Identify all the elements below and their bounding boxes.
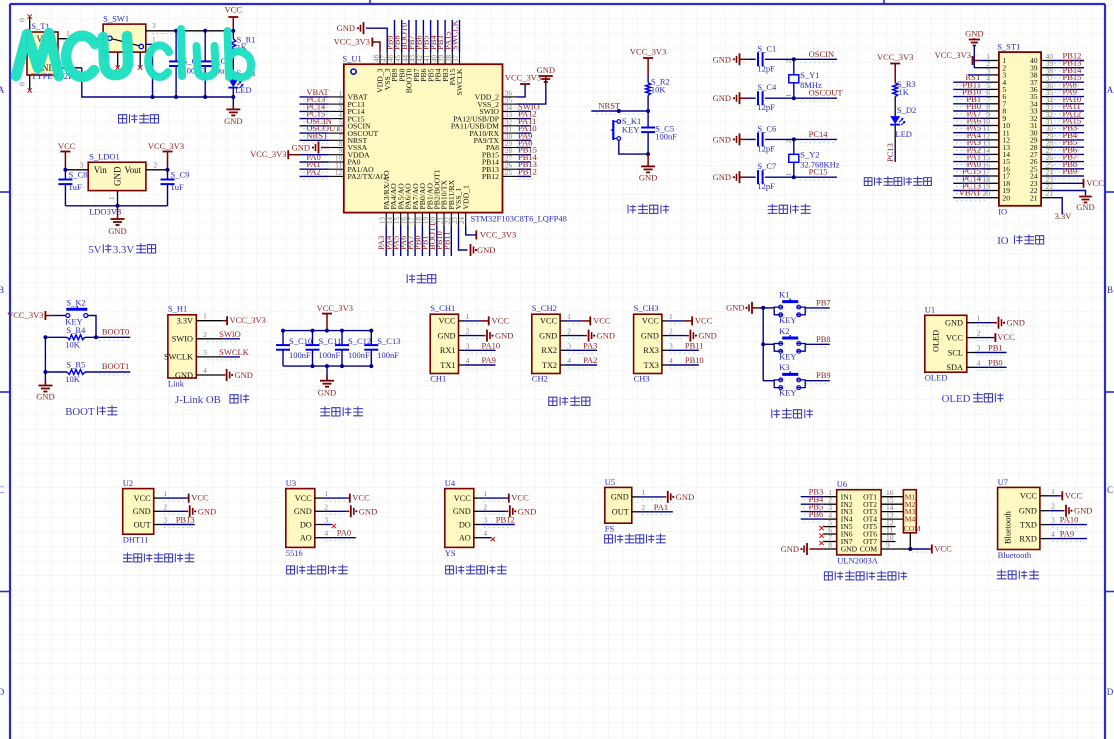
svg-text:TX1: TX1 xyxy=(440,361,455,370)
svg-text:U6: U6 xyxy=(837,479,847,489)
svg-text:24: 24 xyxy=(458,217,466,225)
svg-text:U3: U3 xyxy=(286,478,296,488)
svg-text:BOOT: BOOT xyxy=(65,406,95,418)
svg-text:D: D xyxy=(1107,687,1114,697)
svg-text:RX3: RX3 xyxy=(643,346,659,355)
svg-text:RXD: RXD xyxy=(1019,534,1037,543)
svg-text:GND: GND xyxy=(639,173,657,183)
svg-text:PA10: PA10 xyxy=(482,340,501,350)
svg-text:2: 2 xyxy=(641,503,645,512)
svg-text:0: 0 xyxy=(18,82,27,86)
svg-text:OUT: OUT xyxy=(612,508,629,517)
svg-text:GND: GND xyxy=(518,506,536,516)
svg-text:PB9: PB9 xyxy=(1063,166,1078,176)
svg-text:S_C8: S_C8 xyxy=(69,170,88,180)
svg-text:NRST: NRST xyxy=(598,101,621,111)
svg-text:S_Y1: S_Y1 xyxy=(800,70,819,80)
svg-text:U5: U5 xyxy=(605,477,615,487)
svg-text:VCC_3V3: VCC_3V3 xyxy=(250,149,286,159)
svg-text:GND: GND xyxy=(597,331,615,341)
svg-text:2: 2 xyxy=(669,327,673,336)
svg-text:1: 1 xyxy=(466,312,470,321)
svg-text:B: B xyxy=(1107,285,1113,295)
svg-text:SWIO: SWIO xyxy=(172,335,193,344)
svg-text:Vin: Vin xyxy=(94,165,107,175)
svg-text:IO: IO xyxy=(998,207,1007,217)
svg-text:S_C9: S_C9 xyxy=(171,170,190,180)
svg-text:AO: AO xyxy=(459,534,471,543)
svg-text:FS: FS xyxy=(605,524,615,534)
svg-text:1uF: 1uF xyxy=(69,182,83,192)
svg-text:1: 1 xyxy=(785,172,793,176)
svg-text:3: 3 xyxy=(80,161,84,170)
svg-text:VCC_3V3: VCC_3V3 xyxy=(230,315,266,325)
svg-text:GND: GND xyxy=(841,545,858,554)
svg-text:GND: GND xyxy=(1019,507,1037,516)
svg-text:PB8: PB8 xyxy=(816,334,831,344)
svg-text:DHT11: DHT11 xyxy=(123,535,149,545)
svg-text:10K: 10K xyxy=(65,340,81,350)
svg-text:2: 2 xyxy=(483,502,487,511)
svg-text:VCC: VCC xyxy=(295,494,313,503)
svg-text:B: B xyxy=(0,285,4,295)
svg-text:12pF: 12pF xyxy=(757,181,775,191)
svg-text:GND: GND xyxy=(133,507,151,516)
svg-text:U4: U4 xyxy=(445,478,456,488)
svg-text:4: 4 xyxy=(324,529,328,538)
svg-text:LDO3V3: LDO3V3 xyxy=(89,207,121,217)
svg-text:PB6: PB6 xyxy=(809,509,824,519)
svg-text:KEY: KEY xyxy=(779,388,796,398)
svg-text:3.3V: 3.3V xyxy=(177,317,193,326)
svg-text:S_C6: S_C6 xyxy=(757,123,776,133)
svg-text:4: 4 xyxy=(669,356,673,365)
svg-text:4: 4 xyxy=(203,366,207,375)
svg-text:J-Link OB: J-Link OB xyxy=(175,394,221,406)
svg-text:VCC_3V3: VCC_3V3 xyxy=(630,47,666,57)
svg-text:VCC: VCC xyxy=(934,544,952,554)
svg-text:PB7: PB7 xyxy=(816,297,831,307)
svg-text:21: 21 xyxy=(1030,193,1038,202)
svg-text:3: 3 xyxy=(977,344,981,353)
svg-text:100nF: 100nF xyxy=(655,132,677,142)
svg-text:3: 3 xyxy=(669,341,673,350)
svg-text:GND: GND xyxy=(108,226,126,236)
svg-text:2: 2 xyxy=(324,502,328,511)
svg-text:VCC: VCC xyxy=(492,315,510,325)
svg-text:1: 1 xyxy=(203,312,207,321)
svg-text:AO: AO xyxy=(300,534,312,543)
svg-text:GND: GND xyxy=(713,54,731,64)
svg-text:1uF: 1uF xyxy=(171,182,185,192)
svg-text:PA1: PA1 xyxy=(654,502,668,512)
svg-text:PB9: PB9 xyxy=(816,370,831,380)
svg-text:GND: GND xyxy=(641,331,659,340)
svg-text:32.768KHz: 32.768KHz xyxy=(800,159,840,169)
svg-text:KEY: KEY xyxy=(622,125,639,135)
svg-text:M4: M4 xyxy=(905,515,916,524)
svg-text:VCC: VCC xyxy=(225,5,243,15)
svg-text:VDD_1: VDD_1 xyxy=(461,185,470,209)
svg-text:1: 1 xyxy=(785,93,793,97)
svg-text:PA2/TX/AO: PA2/TX/AO xyxy=(348,172,387,181)
svg-text:PA0: PA0 xyxy=(337,528,351,538)
svg-text:OLED: OLED xyxy=(932,330,941,352)
svg-text:S_D2: S_D2 xyxy=(897,105,916,115)
svg-text:GND: GND xyxy=(537,65,555,75)
svg-text:VCC: VCC xyxy=(1020,492,1038,501)
svg-text:DO: DO xyxy=(300,520,312,529)
svg-text:U2: U2 xyxy=(123,478,133,488)
svg-text:12pF: 12pF xyxy=(757,102,775,112)
svg-text:K3: K3 xyxy=(779,362,789,372)
svg-text:20: 20 xyxy=(1002,193,1010,202)
svg-text:OLED: OLED xyxy=(925,373,948,383)
svg-text:VCC_3V3: VCC_3V3 xyxy=(935,50,971,60)
svg-text:2: 2 xyxy=(977,329,981,338)
svg-text:VCC: VCC xyxy=(997,332,1015,342)
svg-text:NRST: NRST xyxy=(306,130,329,140)
svg-text:VCC_3V3: VCC_3V3 xyxy=(877,52,913,62)
svg-text:VCC: VCC xyxy=(191,493,209,503)
svg-text:U7: U7 xyxy=(998,477,1008,487)
svg-text:GND: GND xyxy=(318,388,336,398)
svg-text:RX1: RX1 xyxy=(440,346,456,355)
svg-text:1: 1 xyxy=(977,314,981,323)
svg-text:3: 3 xyxy=(203,348,207,357)
svg-text:PB0: PB0 xyxy=(988,357,1003,367)
svg-text:20: 20 xyxy=(983,189,991,198)
svg-text:3: 3 xyxy=(152,21,156,30)
svg-text:VCC: VCC xyxy=(511,493,529,503)
svg-text:0: 0 xyxy=(18,18,27,22)
svg-text:TX2: TX2 xyxy=(542,361,557,370)
svg-text:VCC_3V3: VCC_3V3 xyxy=(334,37,370,47)
svg-text:VCC_3V3: VCC_3V3 xyxy=(7,310,43,320)
svg-text:VCC: VCC xyxy=(438,317,456,326)
svg-text:1: 1 xyxy=(567,312,571,321)
svg-text:A: A xyxy=(1107,85,1114,95)
svg-text:IO: IO xyxy=(997,235,1009,247)
svg-text:PB12: PB12 xyxy=(482,172,499,181)
svg-text:PB11: PB11 xyxy=(441,231,451,250)
svg-text:GND: GND xyxy=(1007,318,1025,328)
svg-text:12: 12 xyxy=(335,169,343,177)
svg-text:9: 9 xyxy=(886,541,890,550)
svg-text:A: A xyxy=(0,85,5,95)
svg-text:S_CH2: S_CH2 xyxy=(532,303,557,313)
svg-text:100nF: 100nF xyxy=(377,350,399,360)
svg-text:VCC: VCC xyxy=(1065,490,1083,500)
svg-text:GND: GND xyxy=(359,506,377,516)
svg-text:PA9: PA9 xyxy=(1060,529,1074,539)
svg-text:YS: YS xyxy=(445,548,456,558)
svg-text:GND: GND xyxy=(495,331,513,341)
svg-text:12pF: 12pF xyxy=(757,63,775,73)
svg-text:S_CH1: S_CH1 xyxy=(430,303,455,313)
svg-text:VCC: VCC xyxy=(58,141,76,151)
svg-text:C: C xyxy=(1107,485,1113,495)
svg-text:3: 3 xyxy=(324,516,328,525)
svg-text:GND: GND xyxy=(965,29,983,39)
svg-text:GND: GND xyxy=(438,331,456,340)
svg-text:LED: LED xyxy=(895,129,912,139)
svg-text:VBAT: VBAT xyxy=(959,188,982,198)
svg-text:10K: 10K xyxy=(651,85,667,95)
svg-text:GND: GND xyxy=(224,116,242,126)
svg-text:GND: GND xyxy=(36,392,54,402)
svg-text:1: 1 xyxy=(1051,487,1055,496)
svg-text:1: 1 xyxy=(483,489,487,498)
svg-text:Bluetooth: Bluetooth xyxy=(1004,510,1013,544)
svg-text:PA2: PA2 xyxy=(306,166,320,176)
svg-text:GND: GND xyxy=(539,331,557,340)
svg-text:GND: GND xyxy=(477,245,495,255)
svg-text:VCC: VCC xyxy=(695,315,713,325)
svg-text:3: 3 xyxy=(1051,516,1055,525)
svg-text:GND: GND xyxy=(235,370,253,380)
svg-text:GND: GND xyxy=(698,331,716,341)
svg-text:S_U1: S_U1 xyxy=(342,54,361,64)
svg-text:1: 1 xyxy=(669,312,673,321)
svg-text:1K: 1K xyxy=(899,87,910,97)
svg-text:S_R4: S_R4 xyxy=(66,325,86,335)
svg-text:COM: COM xyxy=(904,524,921,533)
svg-text:S_C7: S_C7 xyxy=(757,161,776,171)
svg-text:KEY: KEY xyxy=(779,315,796,325)
svg-text:37: 37 xyxy=(452,55,460,63)
svg-text:GND: GND xyxy=(713,93,731,103)
svg-text:CH1: CH1 xyxy=(430,374,446,384)
svg-text:4: 4 xyxy=(466,356,470,365)
svg-text:25: 25 xyxy=(505,169,513,177)
svg-text:VCC: VCC xyxy=(946,333,964,342)
svg-text:OUT: OUT xyxy=(134,520,151,529)
svg-text:BOOT0: BOOT0 xyxy=(102,327,129,337)
svg-text:4: 4 xyxy=(1051,530,1055,539)
svg-text:BOOT1: BOOT1 xyxy=(102,361,129,371)
svg-text:PA2: PA2 xyxy=(583,355,597,365)
svg-text:3.3V: 3.3V xyxy=(113,244,134,256)
svg-text:5516: 5516 xyxy=(286,548,303,558)
svg-text:1: 1 xyxy=(163,489,167,498)
svg-text:3: 3 xyxy=(483,516,487,525)
svg-text:5V: 5V xyxy=(88,244,101,256)
svg-text:SWCLK: SWCLK xyxy=(164,353,193,362)
svg-text:PA10: PA10 xyxy=(1060,515,1079,525)
svg-text:LED: LED xyxy=(235,85,252,95)
svg-text:KEY: KEY xyxy=(779,351,796,361)
svg-text:1: 1 xyxy=(107,196,116,200)
svg-text:PB11: PB11 xyxy=(685,340,704,350)
svg-text:VCC: VCC xyxy=(642,317,660,326)
svg-text:PB10: PB10 xyxy=(685,355,704,365)
svg-text:VCC: VCC xyxy=(134,494,152,503)
svg-text:GND: GND xyxy=(676,492,694,502)
svg-text:S_C4: S_C4 xyxy=(757,82,777,92)
svg-text:SWCLK: SWCLK xyxy=(219,347,250,357)
svg-text:4: 4 xyxy=(567,356,571,365)
svg-text:1: 1 xyxy=(641,488,645,497)
svg-text:3: 3 xyxy=(163,516,167,525)
svg-text:PB12: PB12 xyxy=(496,515,515,525)
svg-text:S_H1: S_H1 xyxy=(168,304,187,314)
svg-text:2: 2 xyxy=(785,59,793,63)
svg-text:OSCIN: OSCIN xyxy=(809,49,835,59)
svg-text:GND: GND xyxy=(113,166,123,186)
svg-text:GND: GND xyxy=(1076,202,1094,212)
svg-text:GND: GND xyxy=(781,544,799,554)
svg-text:S_SW1: S_SW1 xyxy=(103,14,129,24)
svg-text:4: 4 xyxy=(977,358,981,367)
svg-text:10K: 10K xyxy=(65,374,81,384)
svg-text:SDA: SDA xyxy=(946,363,963,372)
svg-text:OLED: OLED xyxy=(942,393,971,405)
svg-text:PB13: PB13 xyxy=(176,515,195,525)
svg-text:C: C xyxy=(0,485,4,495)
svg-text:GND: GND xyxy=(611,493,629,502)
svg-text:PB12: PB12 xyxy=(518,166,537,176)
svg-text:K2: K2 xyxy=(779,326,789,336)
svg-text:PB1: PB1 xyxy=(988,343,1003,353)
svg-text:DO: DO xyxy=(459,520,471,529)
svg-text:VCC_3V3: VCC_3V3 xyxy=(148,141,184,151)
svg-text:2: 2 xyxy=(1051,502,1055,511)
svg-text:GND: GND xyxy=(198,506,216,516)
svg-text:PC14: PC14 xyxy=(809,129,829,139)
svg-text:100nF: 100nF xyxy=(289,350,311,360)
svg-text:S_Y2: S_Y2 xyxy=(800,149,819,159)
svg-text:100nF: 100nF xyxy=(348,350,370,360)
svg-text:VCC: VCC xyxy=(454,494,472,503)
svg-text:GND: GND xyxy=(175,371,193,380)
svg-text:12pF: 12pF xyxy=(757,143,775,153)
svg-text:SCL: SCL xyxy=(948,348,963,357)
svg-text:2: 2 xyxy=(163,502,167,511)
svg-text:GND: GND xyxy=(337,23,355,33)
svg-text:2: 2 xyxy=(203,330,207,339)
svg-text:100nF: 100nF xyxy=(319,350,341,360)
svg-text:PA3: PA3 xyxy=(583,340,597,350)
svg-text:GND: GND xyxy=(713,172,731,182)
svg-text:GND: GND xyxy=(713,134,731,144)
svg-text:COM: COM xyxy=(860,545,878,554)
svg-text:8: 8 xyxy=(828,541,832,550)
svg-text:S_CH3: S_CH3 xyxy=(634,303,659,313)
svg-text:2: 2 xyxy=(154,161,158,170)
svg-text:2: 2 xyxy=(466,327,470,336)
svg-text:SWIO: SWIO xyxy=(219,329,241,339)
svg-text:S_LDO1: S_LDO1 xyxy=(89,152,120,162)
svg-text:2: 2 xyxy=(567,327,571,336)
svg-text:VCC_3V3: VCC_3V3 xyxy=(480,230,516,240)
svg-text:2: 2 xyxy=(785,139,793,143)
svg-text:D: D xyxy=(0,687,5,697)
svg-text:STM32F103C8T6_LQFP48: STM32F103C8T6_LQFP48 xyxy=(471,214,567,224)
svg-text:PC13: PC13 xyxy=(885,143,895,162)
svg-text:1: 1 xyxy=(324,489,328,498)
svg-text:Vout: Vout xyxy=(124,165,141,175)
svg-text:TX3: TX3 xyxy=(644,361,659,370)
svg-text:S_C1: S_C1 xyxy=(757,43,776,53)
svg-text:GND: GND xyxy=(294,507,312,516)
svg-text:ULN2003A: ULN2003A xyxy=(837,556,878,566)
svg-text:VCC_3V3: VCC_3V3 xyxy=(317,303,353,313)
svg-text:SWCLK: SWCLK xyxy=(455,68,464,95)
svg-text:3: 3 xyxy=(567,341,571,350)
svg-text:VCC: VCC xyxy=(352,493,370,503)
svg-text:K1: K1 xyxy=(779,289,789,299)
svg-text:Bluetooth: Bluetooth xyxy=(998,550,1032,560)
svg-text:S_ST1: S_ST1 xyxy=(997,42,1020,52)
svg-text:GND: GND xyxy=(292,143,310,153)
svg-text:VCC: VCC xyxy=(540,317,558,326)
svg-text:GND: GND xyxy=(726,303,744,313)
svg-text:VCC: VCC xyxy=(1086,178,1104,188)
svg-text:TXD: TXD xyxy=(1020,520,1037,529)
svg-text:GND: GND xyxy=(945,319,963,328)
svg-text:S_C13: S_C13 xyxy=(377,336,400,346)
svg-text:8MHz: 8MHz xyxy=(800,80,822,90)
svg-text:RX2: RX2 xyxy=(541,346,557,355)
svg-text:U1: U1 xyxy=(925,305,935,315)
svg-text:S_R5: S_R5 xyxy=(66,360,85,370)
svg-text:CH2: CH2 xyxy=(532,374,548,384)
svg-text:3.3V: 3.3V xyxy=(1055,211,1073,221)
svg-text:SWCLK: SWCLK xyxy=(450,19,460,50)
svg-text:PA9: PA9 xyxy=(482,355,496,365)
svg-text:S_K2: S_K2 xyxy=(66,298,85,308)
svg-text:4: 4 xyxy=(483,529,487,538)
svg-text:CH3: CH3 xyxy=(634,374,650,384)
svg-text:GND: GND xyxy=(453,507,471,516)
svg-text:3: 3 xyxy=(466,341,470,350)
svg-text:VCC: VCC xyxy=(593,315,611,325)
svg-text:Link: Link xyxy=(168,379,185,389)
